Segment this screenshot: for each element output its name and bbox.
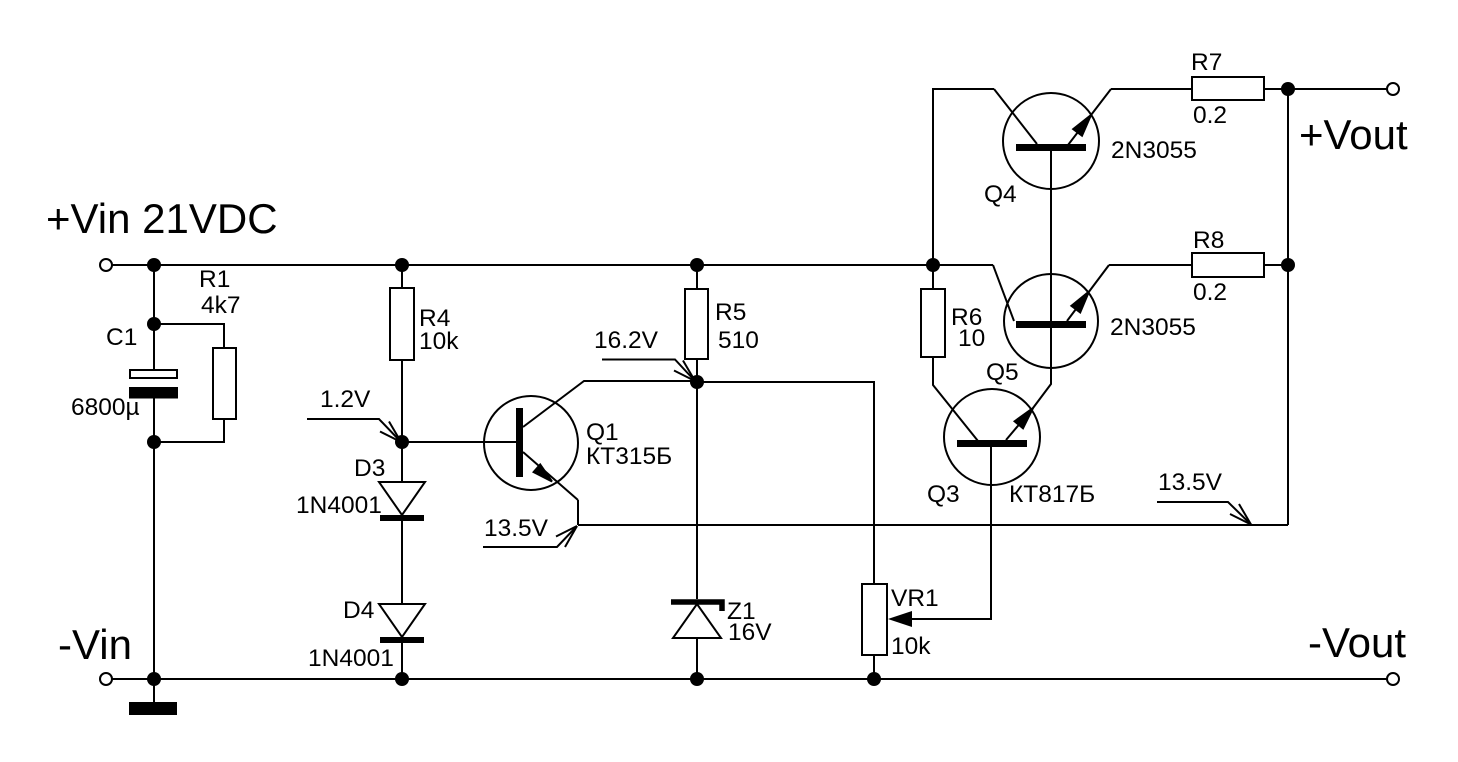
potentiometer VR1 xyxy=(862,584,912,655)
ground xyxy=(129,702,177,715)
transistor Q1 xyxy=(484,396,578,525)
wire -Vin node down to ground xyxy=(153,679,155,702)
svg-text:10: 10 xyxy=(958,325,985,352)
svg-text:10k: 10k xyxy=(891,633,931,660)
svg-text:6800µ: 6800µ xyxy=(71,394,140,421)
wire Q3 base down to VR1 wiper xyxy=(912,446,991,619)
resistor R8 xyxy=(1192,253,1264,277)
wire left vertical x154 rail to C1 top plate xyxy=(153,265,155,370)
svg-text:КТ315Б: КТ315Б xyxy=(586,443,672,470)
node dot R8 output xyxy=(1281,258,1295,272)
node dot rail-R4 xyxy=(395,258,409,272)
diode D4 xyxy=(379,604,425,643)
zener Z1 xyxy=(671,602,722,638)
annotation arrow 13.5V right xyxy=(1157,502,1251,525)
resistor R7 xyxy=(1192,77,1264,100)
transistor Q5 xyxy=(1004,265,1109,368)
svg-text:C1: C1 xyxy=(106,324,137,351)
node dot bottom rail C1 xyxy=(147,672,161,686)
wire node right then down to VR1 top xyxy=(697,382,874,584)
wire C1 bottom plate down to bottom rail xyxy=(153,397,155,679)
annotation arrow 16.2V xyxy=(602,360,695,382)
svg-text:1N4001: 1N4001 xyxy=(296,492,382,519)
node dot rail-C1 xyxy=(147,258,161,272)
transistor Q3 xyxy=(944,389,1040,485)
node dot 16.2V xyxy=(690,375,704,389)
wire top rail from +Vin terminal to Q5 collector start xyxy=(112,264,993,266)
node dot rail-R6 xyxy=(926,258,940,272)
wire Q5 base down then diagonal to Q3 emitter tip xyxy=(1033,328,1051,408)
annotation arrow 1.2V xyxy=(307,419,401,442)
svg-text:-Vout: -Vout xyxy=(1308,619,1406,666)
wire bottom rail xyxy=(112,678,1387,680)
wire R7 right to node xyxy=(1264,88,1288,90)
resistor R6 xyxy=(921,289,945,357)
svg-text:16.2V: 16.2V xyxy=(594,327,659,354)
diode D3 xyxy=(379,482,425,521)
wire Q4 collector branch: vertical x933 from y89 to rail xyxy=(933,89,994,265)
terminal +Vout xyxy=(1387,83,1399,95)
wire R8 right to +Vout vertical node xyxy=(1264,264,1288,266)
node dot bottom rail D4 xyxy=(395,672,409,686)
terminal -Vin xyxy=(100,673,112,685)
svg-text:Q3: Q3 xyxy=(927,481,960,508)
resistor R1 xyxy=(213,348,236,419)
svg-text:13.5V: 13.5V xyxy=(484,515,549,542)
svg-text:-Vin: -Vin xyxy=(58,621,132,668)
wire node to Z1 cathode xyxy=(696,382,698,599)
resistor R4 xyxy=(390,288,414,360)
wire node to +Vout terminal xyxy=(1288,88,1387,90)
wire base node to Q1 base xyxy=(402,441,516,443)
svg-text:0.2: 0.2 xyxy=(1193,102,1227,129)
wire top-rail segment Q5 emitter to R8 left xyxy=(1109,264,1192,266)
node dot R7 output xyxy=(1281,82,1295,96)
node dot rail-R5 xyxy=(690,258,704,272)
svg-text:D4: D4 xyxy=(343,597,374,624)
svg-text:VR1: VR1 xyxy=(891,585,939,612)
terminal -Vout xyxy=(1387,673,1399,685)
svg-text:13.5V: 13.5V xyxy=(1158,469,1223,496)
svg-text:510: 510 xyxy=(718,327,759,354)
wire D4 to bottom rail xyxy=(401,643,403,679)
wire R1 bottom to C1 bottom node xyxy=(154,419,224,442)
wire Q4 emitter to R7 left xyxy=(1111,88,1192,90)
wire +Vout vertical x1288 from R7 node down to 13.5V feedback wire xyxy=(1287,89,1289,525)
wire base node down to D3 xyxy=(401,442,403,482)
wire Q4 base down to Q5 base bar xyxy=(1050,151,1052,321)
wire Q4 collector diagonal xyxy=(994,89,1037,144)
svg-text:КТ817Б: КТ817Б xyxy=(1009,481,1095,508)
wire Z1 anode to bottom rail xyxy=(696,638,698,679)
svg-text:Q1: Q1 xyxy=(586,419,619,446)
svg-text:R5: R5 xyxy=(715,299,746,326)
capacitor C1 xyxy=(129,370,178,399)
wire R6 bottom to Q3 collector diagonal xyxy=(933,357,978,441)
wire C1 top node to R1 top xyxy=(154,324,224,348)
transistor Q4 xyxy=(1003,89,1111,189)
node dot Q1 base / D3 xyxy=(395,435,409,449)
svg-text:16V: 16V xyxy=(728,619,772,646)
svg-text:+Vin 21VDC: +Vin 21VDC xyxy=(46,195,278,242)
svg-text:R8: R8 xyxy=(1193,227,1224,254)
svg-text:D3: D3 xyxy=(354,455,385,482)
node dot C1 bottom xyxy=(147,435,161,449)
annotation arrow 13.5V left xyxy=(483,526,577,547)
svg-text:R7: R7 xyxy=(1191,49,1222,76)
svg-text:4k7: 4k7 xyxy=(201,292,241,319)
wire rail node to R6 top xyxy=(932,265,934,289)
svg-text:1.2V: 1.2V xyxy=(320,386,371,413)
svg-text:2N3055: 2N3055 xyxy=(1110,314,1196,341)
wire 13.5V feedback horizontal y525 from Q1 emitter to x1288 xyxy=(578,524,1288,526)
svg-text:Q4: Q4 xyxy=(984,181,1017,208)
node dot bottom rail Z1 xyxy=(690,672,704,686)
wire VR1 bottom to rail xyxy=(873,655,875,679)
wire rail to R4 top xyxy=(401,265,403,288)
svg-text:R1: R1 xyxy=(199,266,230,293)
wire R4 bottom to base node xyxy=(401,360,403,442)
wire Q1 collector diagonal and horizontal to node xyxy=(523,381,697,427)
node dot C1 top xyxy=(147,317,161,331)
svg-text:+Vout: +Vout xyxy=(1299,111,1408,158)
svg-text:Q5: Q5 xyxy=(986,359,1019,386)
svg-text:2N3055: 2N3055 xyxy=(1111,137,1197,164)
node dot bottom rail VR1 xyxy=(867,672,881,686)
resistor R5 xyxy=(685,289,708,359)
svg-text:0.2: 0.2 xyxy=(1193,279,1227,306)
wire Q5 collector diagonal xyxy=(993,265,1014,321)
wire R5 bottom to node xyxy=(696,359,698,382)
terminal +Vin xyxy=(100,259,112,271)
wire D3 to D4 xyxy=(401,521,403,604)
svg-text:10k: 10k xyxy=(419,328,459,355)
svg-text:1N4001: 1N4001 xyxy=(308,645,394,672)
wire rail to R5 top xyxy=(696,265,698,289)
